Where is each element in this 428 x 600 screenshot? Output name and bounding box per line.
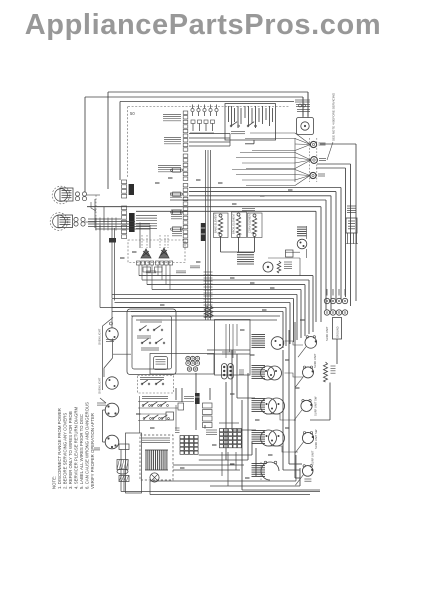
control board pins dense [145, 450, 147, 470]
wire P1 feeds [189, 133, 230, 135]
terminal labels [319, 142, 326, 144]
oven light OL1 [106, 328, 118, 340]
fan motor FM2 [105, 435, 119, 449]
wire left drop x108 [107, 92, 109, 189]
bake contacts row [143, 402, 148, 406]
wire OL1 [111, 299, 113, 328]
wire bottom center [204, 425, 206, 429]
wire right block links [336, 339, 338, 364]
element E2 broil [232, 212, 247, 238]
wire element links [266, 414, 296, 420]
svg-text:GROUND: GROUND [336, 326, 340, 338]
wire mid bus lines [139, 275, 313, 277]
relay box outer [127, 309, 176, 375]
surface element SE2 [303, 367, 314, 378]
surface switch SW3 [252, 398, 266, 400]
motor M2 box [58, 215, 73, 228]
wire burner columns left [231, 350, 233, 430]
wire bottom left drops [120, 450, 122, 492]
wire element drops [220, 237, 222, 253]
wire top bus L2 [85, 96, 303, 98]
igniter dashed box [128, 240, 185, 263]
capacitor box [119, 444, 129, 450]
connector grid G1 [180, 436, 184, 439]
wire fan collector [294, 138, 296, 182]
latch rotated labels [228, 106, 230, 122]
component row right of P1 top [191, 108, 194, 111]
svg-text:OVEN LIGHT: OVEN LIGHT [98, 377, 102, 394]
svg-text:NOTE:: NOTE: [52, 476, 57, 489]
surface element SE5 [302, 466, 313, 477]
frame bottom left [126, 433, 142, 493]
motor M1 box [60, 188, 73, 201]
SW5 contacts [264, 461, 267, 464]
FM2 wire labels [94, 447, 100, 449]
supply coil labels [331, 365, 336, 367]
igniter Y1 [141, 249, 151, 258]
motor M1 dashed rotor [55, 189, 68, 202]
buzzer labels [295, 99, 310, 101]
door latch switch box SW [225, 104, 276, 140]
igniter sub boxes [143, 267, 151, 272]
relay contacts upper [140, 325, 147, 330]
wire bus y187 [189, 187, 341, 189]
wire G2 drops [221, 452, 223, 476]
relay dashed box lower [138, 376, 174, 394]
label dark bar PL [195, 393, 200, 404]
wire igniter drops [138, 265, 140, 276]
label dark bar P4 [201, 223, 206, 241]
svg-text:3. REFER ONLY TO WIRES FOR PRO: 3. REFER ONLY TO WIRES FOR PROB [68, 411, 73, 489]
svg-text:1. DISCONNECT RANGE FROM POWER: 1. DISCONNECT RANGE FROM POWER [57, 408, 62, 489]
wire FM link [102, 410, 104, 442]
wire relay feeds [175, 388, 177, 400]
terminal grid TB1 [186, 356, 190, 360]
surface switch SW2 [252, 365, 266, 367]
svg-text:SURF UNIT SW: SURF UNIT SW [314, 429, 318, 449]
wire M2 out [85, 221, 96, 223]
bulb symbol [150, 473, 159, 482]
conv motor winding [277, 261, 281, 273]
wire burner columns right [282, 350, 284, 470]
svg-text:VERIFY PROPER OPERATION AFTER: VERIFY PROPER OPERATION AFTER [90, 413, 95, 489]
wire horizontal feeds to fans [250, 132, 295, 134]
connector P13 labels [347, 205, 356, 207]
surface switch SW1 [252, 334, 266, 336]
wire latch drop [253, 140, 255, 144]
wire bus y211 [136, 210, 316, 212]
wire left drop x120 [119, 102, 121, 181]
element E3 convect [248, 213, 263, 238]
wire motor junction [87, 206, 121, 208]
wire right frame 3 [345, 168, 347, 297]
component row 2 right of P1 [191, 120, 195, 123]
igniter Y1 strip [137, 261, 141, 265]
connector P1 strip [183, 111, 188, 114]
latch lower labels [231, 131, 245, 133]
element labels top [242, 208, 255, 210]
label block P2 dark upper [129, 184, 134, 195]
labels left of P1 [163, 114, 181, 116]
svg-text:BROIL ELEMENT: BROIL ELEMENT [232, 213, 236, 234]
svg-text:SURF UNIT: SURF UNIT [313, 353, 317, 368]
wire conv to bus [268, 257, 300, 259]
svg-text:SURF UNIT SW: SURF UNIT SW [314, 396, 318, 416]
wire bus y191 [189, 191, 336, 193]
dashed chassis vertical at terminals [309, 138, 311, 182]
wire dashed drop x127 [127, 107, 129, 179]
wire buzzer feeds [307, 92, 309, 118]
relay labels extra [137, 335, 151, 337]
wire note leader [327, 142, 333, 160]
terminal ring T1 [310, 141, 316, 147]
convection motor CM [263, 262, 273, 272]
latch switch contacts [231, 122, 237, 126]
igniter Y2 [159, 248, 169, 258]
wire bus y207 [87, 206, 321, 208]
motor M2 dashed rotor [53, 215, 66, 228]
terminal row TR1 [324, 298, 329, 303]
ground strap block [333, 318, 342, 340]
header watermark [0, 9, 417, 42]
element coil 2 [324, 362, 328, 382]
scattered wire labels [155, 182, 160, 184]
element E1 bake [214, 213, 229, 238]
wire bundle with ticks [205, 150, 207, 320]
box2 internal wires [225, 324, 227, 358]
svg-text:5. LABEL ALL WIRES PRIOR TO DI: 5. LABEL ALL WIRES PRIOR TO DISC [79, 414, 84, 489]
wires through contact rows [138, 401, 194, 403]
connector P13 block [346, 218, 357, 233]
wire dashed chassis top [128, 106, 290, 108]
wire igniter risers [141, 235, 143, 248]
wire right frame 2 [350, 164, 352, 306]
svg-text:CONV ELEMENT: CONV ELEMENT [248, 212, 252, 233]
surface element SE4 [302, 432, 313, 443]
small box right of contacts [178, 403, 184, 410]
wire bus y196 [189, 195, 331, 197]
svg-text:50: 50 [130, 111, 135, 116]
relay box inner [132, 316, 172, 369]
oven light OL2 [106, 377, 118, 389]
motor M1 terminals [75, 192, 79, 196]
control board block dashed [140, 435, 173, 480]
igniter wire labels [146, 270, 156, 272]
stacked boxes PL [203, 403, 213, 408]
svg-text:2. BEFORE SERVICING ANY COVERS: 2. BEFORE SERVICING ANY COVERS [63, 413, 68, 489]
wire top bus L1 [108, 91, 308, 93]
wire P13 drops [347, 233, 349, 244]
connector P2 strip [122, 180, 127, 184]
svg-text:6. CAN CAUSE WRONG AND DANGERO: 6. CAN CAUSE WRONG AND DANGEROUS [85, 402, 90, 489]
heater hatched [117, 460, 128, 470]
svg-text:4. SERVICER PLEASE RETURN DIAG: 4. SERVICER PLEASE RETURN DIAGRM [74, 407, 79, 489]
connector grid G2 [220, 429, 224, 432]
wire junction risers [139, 223, 141, 249]
svg-text:OVEN LIGHT: OVEN LIGHT [98, 328, 102, 345]
mid relay box 2 [215, 320, 251, 376]
terminal ring T3 [310, 172, 316, 178]
fan motor FM1 [105, 403, 119, 417]
label block P2 dark lower [129, 213, 135, 232]
wire left drop x85 [84, 97, 86, 192]
terminal row labels [326, 289, 328, 296]
fuse symbols column [173, 168, 181, 172]
broil contacts row [144, 415, 149, 419]
wire right frame outer [355, 144, 357, 301]
surface element SE3 [301, 400, 312, 411]
wire fans to terminals [295, 133, 310, 145]
svg-text:SEE NOTE 4 BEFORE SERVICING: SEE NOTE 4 BEFORE SERVICING [332, 92, 336, 141]
terminal ring T2 [311, 157, 318, 164]
terminal row TR2 [324, 310, 329, 315]
relay DLB box [154, 357, 168, 370]
wire M1 out [87, 194, 100, 196]
wire bus y200 [170, 199, 326, 201]
relay wide lower box [150, 354, 214, 375]
buzzer B1 [297, 118, 314, 135]
surface switch SW4 [252, 430, 266, 432]
motor M2 terminals [74, 217, 78, 221]
labels near G2 [206, 429, 217, 431]
coil at bundle end [205, 306, 209, 318]
label cluster P5 dark [237, 252, 254, 254]
svg-text:SURF UNIT: SURF UNIT [325, 326, 329, 341]
wire top bus N [120, 101, 294, 103]
surface element SE1 [305, 337, 317, 349]
igniter Y2 strip [156, 261, 160, 265]
svg-text:BAKE ELEMENT: BAKE ELEMENT [214, 213, 218, 233]
oven selector switch SW5 [252, 463, 266, 465]
label BK left verticals [109, 238, 116, 243]
wire labels right of P2 [136, 215, 157, 217]
wire left verticals to junction [94, 199, 96, 228]
igniter hatched 2 [119, 476, 129, 482]
thermostat TOD [297, 226, 307, 228]
svg-text:SURF UNIT: SURF UNIT [311, 450, 315, 465]
relay capsules K1 K2 [222, 364, 228, 380]
wire FM1 arc [100, 398, 106, 403]
